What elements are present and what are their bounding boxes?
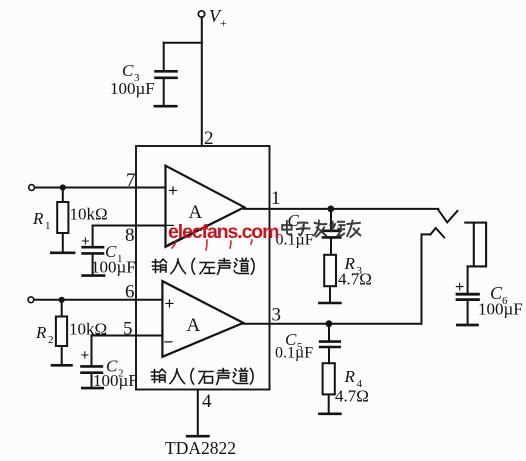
resistor R4	[323, 363, 335, 394]
node junction input right	[59, 297, 65, 303]
wire pin 3 output	[243, 323, 421, 325]
wire C4 top lead	[330, 209, 332, 231]
wire C6 bottom lead	[467, 300, 469, 325]
svg-text:1: 1	[45, 220, 51, 232]
node junction pin 1	[327, 206, 334, 213]
resistor R3	[324, 255, 336, 286]
label V+	[209, 6, 227, 30]
svg-text:0.1µF: 0.1µF	[275, 345, 313, 362]
label R2	[35, 323, 54, 346]
svg-text:10kΩ: 10kΩ	[69, 320, 107, 339]
wire R1 top lead	[62, 188, 64, 203]
svg-text:7: 7	[126, 170, 136, 191]
IC box TDA2822	[136, 146, 270, 390]
svg-text:5: 5	[123, 319, 133, 340]
label R3	[344, 254, 363, 277]
jack contact right channel	[431, 228, 445, 237]
ground R3	[319, 302, 340, 305]
ground C2	[82, 387, 102, 390]
jack contact left channel	[438, 210, 457, 223]
svg-text:+: +	[165, 294, 175, 313]
label R1	[32, 209, 51, 232]
label C6	[490, 283, 508, 307]
wire C5 to R4	[328, 347, 330, 363]
label R4	[344, 367, 363, 390]
ground C1	[83, 274, 105, 277]
svg-text:4: 4	[202, 391, 212, 412]
svg-text:1: 1	[271, 188, 281, 209]
label C5	[285, 330, 303, 353]
capacitor C1	[83, 247, 103, 253]
svg-text:R: R	[35, 323, 47, 342]
op-amp A1	[166, 166, 245, 247]
wire jack right channel riser	[422, 234, 431, 323]
svg-text:−: −	[164, 333, 174, 352]
svg-text:+: +	[168, 181, 178, 200]
svg-text:C: C	[122, 61, 134, 80]
wire earphone to C6	[467, 266, 469, 293]
wire pin 6	[34, 299, 162, 301]
svg-text:4.7Ω: 4.7Ω	[335, 387, 369, 406]
wire pin 7	[35, 187, 166, 189]
wire pin 8	[93, 225, 166, 227]
capacitor C6	[457, 294, 478, 299]
svg-text:R: R	[32, 209, 44, 228]
svg-text:R: R	[344, 367, 356, 386]
label C2	[106, 357, 124, 380]
ground R1	[51, 252, 74, 255]
wire C3 branch	[164, 42, 202, 44]
wire C5 top lead	[328, 324, 330, 342]
label input right channel	[152, 368, 254, 384]
svg-text:4.7Ω: 4.7Ω	[338, 270, 372, 289]
wire C3 top lead	[163, 43, 165, 71]
wire pin 1 output	[244, 208, 438, 210]
svg-text:A: A	[189, 202, 203, 223]
wire V+ to pin 2	[201, 17, 203, 146]
wire R1 bottom lead	[62, 233, 64, 253]
wire C1 top lead	[92, 226, 94, 248]
capacitor C5	[320, 342, 340, 347]
terminal V+	[198, 11, 204, 17]
node junction input left	[60, 184, 66, 190]
label C3	[122, 61, 140, 84]
terminal input left	[29, 185, 35, 191]
capacitor C2	[82, 366, 102, 372]
wire A1 feedback diagonal	[168, 208, 244, 245]
svg-text:+: +	[455, 279, 464, 296]
capacitor C3	[156, 71, 177, 78]
wire C3 bottom lead	[163, 78, 165, 106]
svg-text:6: 6	[125, 282, 135, 303]
svg-text:0.1µF: 0.1µF	[276, 232, 314, 249]
watermark script	[282, 221, 360, 237]
ground R4	[319, 412, 340, 415]
label input left channel	[153, 258, 255, 274]
ground pin 4	[187, 435, 208, 438]
svg-text:8: 8	[125, 225, 135, 246]
wire R2 top lead	[61, 300, 63, 317]
svg-text:A: A	[187, 315, 201, 336]
label C1	[105, 242, 123, 265]
ground C3	[155, 105, 177, 108]
svg-text:100µF: 100µF	[93, 371, 138, 390]
wire pin 4	[197, 390, 199, 437]
terminal input right	[28, 297, 34, 303]
op-amp A2	[162, 281, 243, 357]
resistor R1	[57, 202, 68, 233]
wire R2 bottom lead	[61, 346, 63, 365]
wire C2 top lead	[91, 336, 93, 367]
capacitor C4	[323, 231, 340, 238]
svg-text:+: +	[81, 347, 90, 364]
wire C2 bottom lead	[91, 373, 93, 388]
svg-text:3: 3	[272, 305, 282, 326]
wire R3 bottom lead	[329, 286, 331, 303]
node junction pin 3	[326, 320, 333, 327]
svg-text:10kΩ: 10kΩ	[70, 205, 108, 224]
wire C4 to R3	[330, 237, 332, 254]
svg-text:+: +	[81, 233, 90, 250]
svg-text:C: C	[288, 211, 300, 230]
svg-text:100µF: 100µF	[478, 300, 523, 319]
svg-text:+: +	[220, 16, 227, 30]
wire C1 bottom lead	[92, 253, 94, 275]
svg-text:100µF: 100µF	[91, 258, 136, 277]
svg-text:TDA2822: TDA2822	[165, 438, 236, 458]
svg-text:2: 2	[48, 334, 54, 346]
earphone element	[465, 223, 486, 267]
svg-text:elecfans.com: elecfans.com	[168, 221, 279, 243]
wire R4 bottom lead	[328, 394, 330, 413]
watermark drips	[172, 240, 252, 250]
svg-text:2: 2	[204, 128, 214, 149]
label C4	[288, 211, 306, 234]
ground C6	[457, 324, 477, 327]
ground R2	[52, 364, 72, 367]
resistor R2	[56, 317, 67, 347]
svg-text:100µF: 100µF	[110, 79, 155, 98]
wire pin 5	[92, 335, 163, 337]
